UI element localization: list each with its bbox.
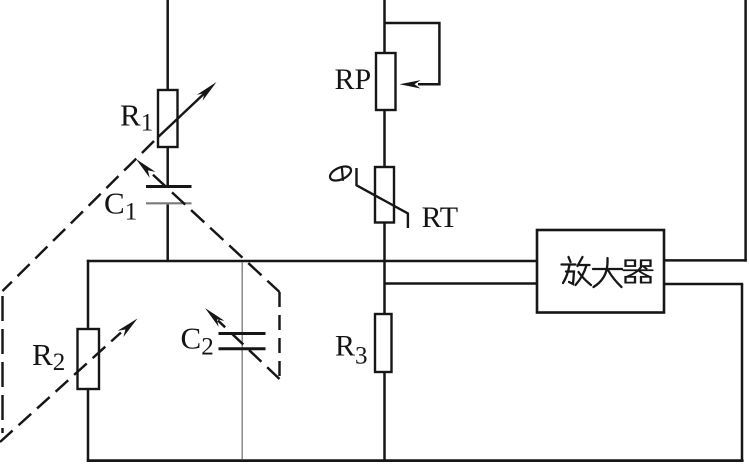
svg-text:RP: RP xyxy=(335,63,372,96)
dashed gang line from C1 arrow down-right xyxy=(150,172,280,292)
amplifier label (fang da qi) drawn strokes xyxy=(562,257,653,287)
RP wiper arrow xyxy=(400,80,421,88)
wire thin vertical through C2 branch xyxy=(241,262,243,460)
theta symbol xyxy=(328,164,353,184)
svg-text:R2: R2 xyxy=(32,337,65,376)
wire amplifier output bottom xyxy=(664,283,743,286)
svg-text:R1: R1 xyxy=(120,98,153,137)
dashed gang line to R2 arrow xyxy=(0,333,121,443)
wire bottom bus xyxy=(87,459,744,462)
wire RP to RT xyxy=(383,110,386,167)
wire left vertical with R2 xyxy=(87,260,90,462)
svg-text:C1: C1 xyxy=(104,186,137,226)
arrow C1 head xyxy=(136,159,156,178)
thermistor RT body xyxy=(375,167,394,223)
wire top-left vertical into R1 xyxy=(166,0,169,90)
amplifier box U1 xyxy=(537,230,664,313)
svg-text:C2: C2 xyxy=(181,321,214,361)
svg-text:R3: R3 xyxy=(335,329,368,369)
wire RP feedback top branch xyxy=(385,23,440,84)
wire top-middle vertical into RP xyxy=(383,0,386,53)
arrow C2 head xyxy=(205,308,225,327)
dashed gang line vertical right of C2 xyxy=(278,292,280,379)
capacitor C1 top plate xyxy=(146,185,192,188)
resistor R1 xyxy=(158,90,178,147)
capacitor C1 bottom plate (lighter) xyxy=(146,202,192,204)
resistor R2 xyxy=(78,329,100,389)
arrow R1 (variable, solid shaft) xyxy=(158,90,209,138)
dashed gang line left vertical xyxy=(1,296,3,433)
wire C1 to node wire xyxy=(166,205,169,262)
wire right vertical up from amplifier output xyxy=(744,0,747,262)
svg-text:RT: RT xyxy=(422,201,459,234)
dashed gang line from R1 down-left xyxy=(3,141,155,291)
resistor R3 xyxy=(375,314,392,372)
wire node horizontal H1 left (to amplifier input) xyxy=(87,260,538,263)
wire R1 to C1 xyxy=(166,147,169,186)
wire R3 to bottom bus xyxy=(383,372,386,461)
dashed gang line from C2 arrow xyxy=(218,321,280,380)
arrow R2 head xyxy=(118,318,138,337)
wire RT down through node wires to R3 xyxy=(383,223,386,315)
capacitor C2 top plate xyxy=(219,332,266,335)
capacitor C2 bottom plate xyxy=(219,347,266,350)
thermistor RT bent line xyxy=(357,168,408,228)
wire right vertical down to bottom bus xyxy=(741,284,744,461)
wire amplifier output top to right edge xyxy=(664,259,747,262)
wire H2 second amplifier input xyxy=(385,282,539,285)
potentiometer RP xyxy=(376,53,396,110)
